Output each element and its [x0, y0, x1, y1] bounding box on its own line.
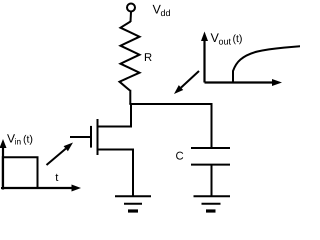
input graph Vin horizontal axis: [1, 185, 81, 192]
label Vin(t): [7, 134, 32, 145]
label Vout(t): [211, 33, 242, 44]
output graph Vout horizontal axis: [205, 79, 283, 86]
wire resistor bottom to drain node: [129, 90, 131, 104]
output charging waveform: [233, 46, 301, 82]
transistor Q1 gate bar: [90, 126, 92, 148]
power terminal Vdd circle: [127, 4, 135, 12]
wire drain node horizontal to capacitor branch: [129, 103, 212, 105]
input step waveform: [3, 157, 38, 187]
label C: [176, 152, 183, 160]
label R: [145, 53, 152, 61]
input graph Vin vertical axis: [0, 139, 7, 190]
capacitor C plates: [191, 148, 230, 165]
transistor Q1 gate lead: [70, 136, 90, 138]
output graph Vout vertical axis: [201, 32, 208, 83]
label Vdd: [153, 5, 170, 16]
ground at capacitor: [194, 196, 231, 211]
arrow from Vout graph to drain node: [174, 71, 199, 94]
arrow from Vin graph to gate: [47, 143, 74, 166]
wire capacitor to ground: [211, 165, 213, 196]
transistor Q1 source wire: [98, 150, 134, 197]
transistor Q1 channel bar: [97, 119, 99, 155]
transistor Q1 (NMOS): [70, 103, 133, 196]
transistor Q1 drain wire: [98, 103, 132, 127]
wire node down to capacitor: [211, 103, 213, 148]
resistor R: [120, 22, 140, 91]
label t axis: [56, 174, 59, 181]
ground at transistor source: [115, 196, 151, 211]
wire Vdd to resistor: [130, 12, 133, 22]
